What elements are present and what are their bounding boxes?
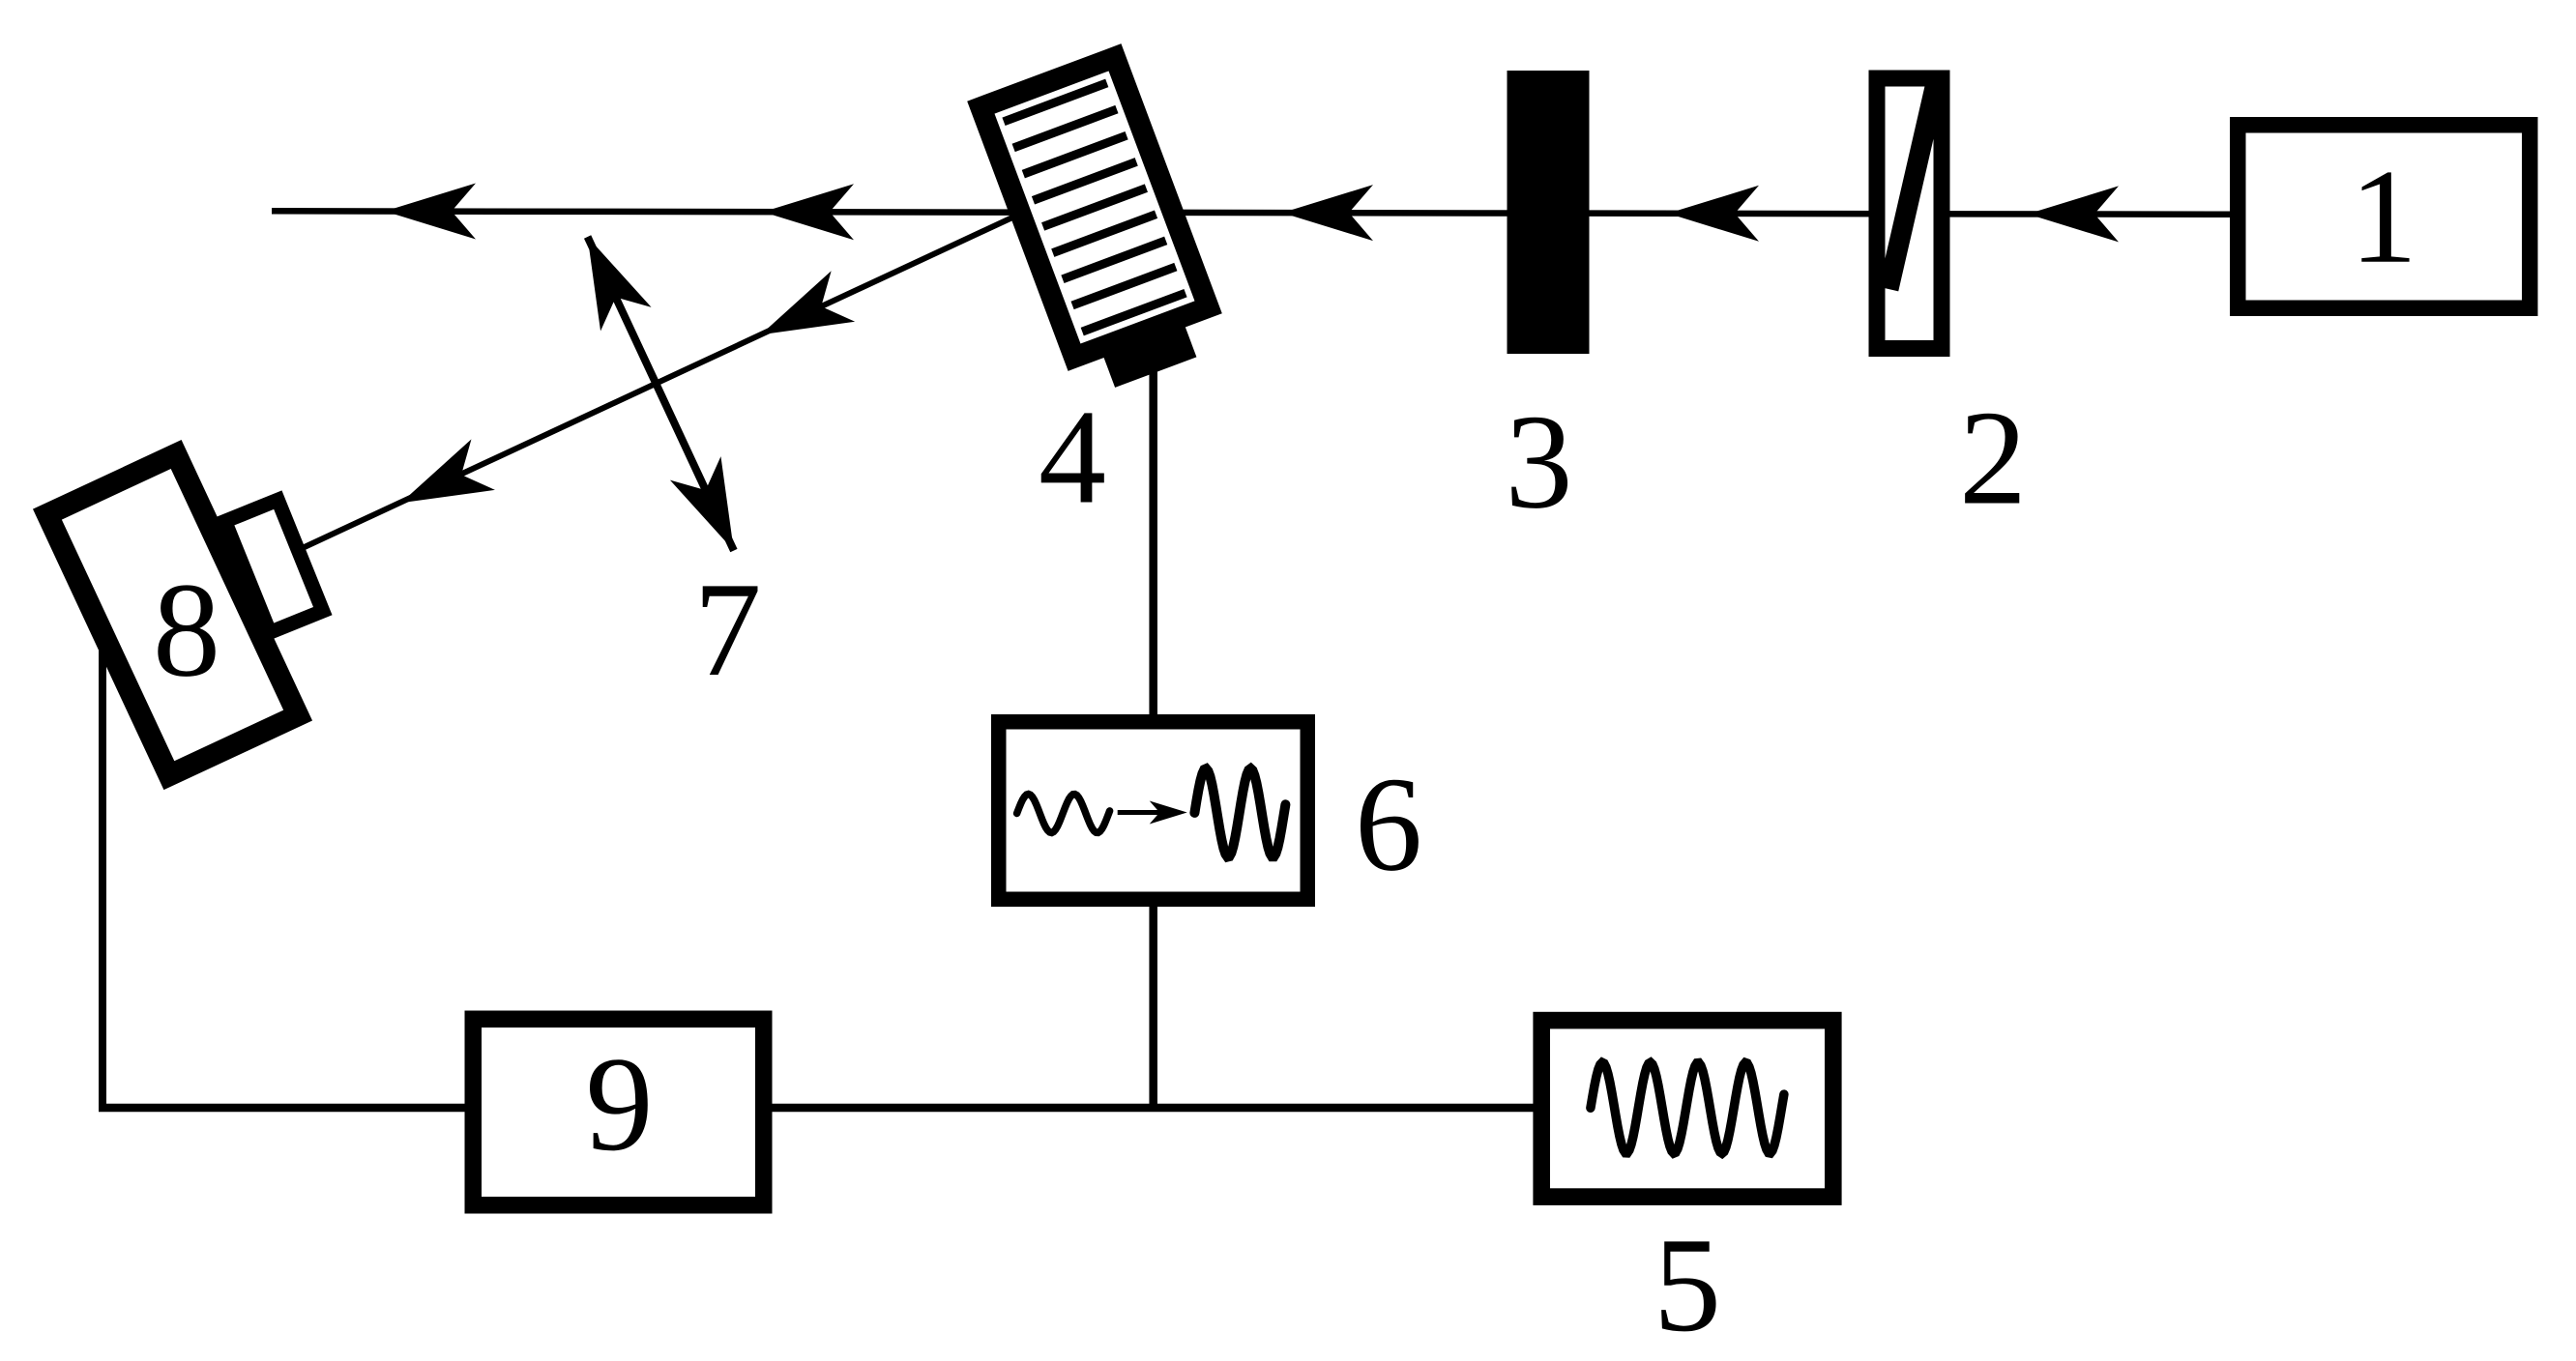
beam arrowhead A2 <box>763 184 854 240</box>
amplifier big wave icon <box>1194 768 1285 856</box>
generator sine icon <box>1591 1062 1784 1153</box>
svg-text:1: 1 <box>2350 142 2417 292</box>
svg-text:7: 7 <box>694 555 762 705</box>
mixer box 9 <box>473 1019 764 1205</box>
svg-text:8: 8 <box>153 556 220 706</box>
wire amplifier 6 to bus <box>1149 901 1157 1108</box>
svg-text:4: 4 <box>1039 383 1106 533</box>
diagonal beam arrowhead D2 <box>389 439 495 528</box>
svg-text:6: 6 <box>1355 750 1422 900</box>
attenuator 3 <box>1508 71 1590 354</box>
detector window tab <box>225 500 323 632</box>
laser box 1 <box>2238 125 2530 308</box>
wire detector 8 down <box>99 648 106 1112</box>
amplifier small wave icon <box>1017 795 1110 833</box>
diagonal beam arrowhead D1 <box>748 271 855 360</box>
beam arrowhead A3 <box>1282 185 1373 241</box>
svg-text:2: 2 <box>1959 384 2027 534</box>
amplifier icon arrow <box>1118 810 1175 815</box>
wire AOM to amplifier 6 <box>1149 367 1157 720</box>
beam arrowhead A1 <box>385 184 476 240</box>
wire bottom bus <box>99 1104 1536 1113</box>
beam arrowhead A4 <box>1668 186 1759 242</box>
amplifier box 6 <box>999 722 1308 900</box>
polarizer 2 <box>1877 78 1942 349</box>
detector 8 <box>47 454 298 775</box>
svg-text:3: 3 <box>1506 388 1573 537</box>
beam arrowhead A5 <box>2028 186 2119 242</box>
AOM 4 <box>981 57 1223 397</box>
svg-text:5: 5 <box>1654 1210 1721 1360</box>
signal generator box 5 <box>1541 1021 1833 1198</box>
wire main beam line <box>272 211 2230 215</box>
svg-text:9: 9 <box>586 1029 654 1179</box>
lens double arrow 7 <box>562 225 759 563</box>
wire diagonal beam to detector <box>304 203 1044 548</box>
